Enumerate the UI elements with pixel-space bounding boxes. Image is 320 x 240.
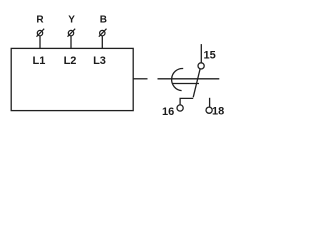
svg-text:L1: L1 [32, 55, 45, 67]
svg-text:15: 15 [204, 49, 216, 61]
svg-text:L2: L2 [64, 55, 77, 67]
svg-text:R: R [36, 15, 44, 26]
svg-text:18: 18 [212, 106, 224, 118]
svg-text:16: 16 [162, 106, 174, 118]
svg-text:L3: L3 [93, 55, 106, 67]
svg-text:Y: Y [68, 15, 75, 26]
svg-text:B: B [100, 15, 107, 26]
